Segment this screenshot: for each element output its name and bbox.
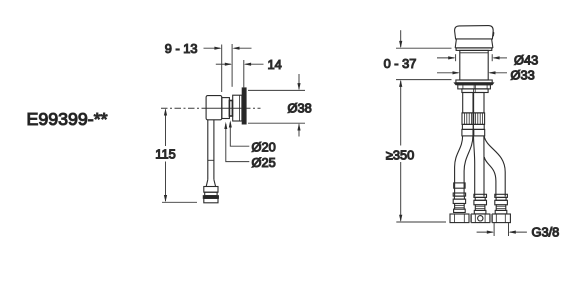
flange plate bottom (dark)	[454, 83, 494, 85]
svg-text:≥350: ≥350	[386, 148, 414, 163]
ring 2 (Ø20 section)	[229, 101, 232, 117]
supply pipe	[206, 120, 215, 187]
shank collar	[462, 89, 488, 93]
button skirt	[455, 39, 493, 48]
svg-text:Ø38: Ø38	[288, 100, 312, 115]
right hose	[484, 136, 505, 197]
mounting nut	[458, 85, 491, 89]
cup	[233, 95, 242, 121]
svg-text:9 - 13: 9 - 13	[165, 41, 198, 56]
svg-text:Ø33: Ø33	[511, 67, 535, 82]
ring on left hose	[454, 183, 465, 188]
band under skirt	[456, 48, 492, 51]
svg-text:0 - 37: 0 - 37	[384, 56, 417, 71]
leader Ø20	[230, 123, 249, 147]
centerline left view	[161, 107, 261, 109]
dimension Ø38	[248, 74, 305, 137]
dimension Ø33	[437, 72, 507, 74]
main cylinder Ø33	[460, 50, 488, 80]
valve body	[206, 96, 222, 120]
svg-text:Ø20: Ø20	[252, 140, 276, 155]
push button cap	[455, 26, 494, 39]
dimension Ø43	[437, 54, 507, 61]
ribbed connectors	[462, 113, 485, 125]
svg-text:G3/8: G3/8	[532, 225, 560, 240]
middle fitting	[474, 194, 487, 197]
svg-text:115: 115	[155, 147, 175, 162]
base manifold	[450, 214, 510, 223]
svg-text:14: 14	[268, 57, 282, 72]
dimension >=350	[396, 162, 446, 222]
right fitting	[495, 194, 508, 197]
svg-text:Ø25: Ø25	[252, 155, 276, 170]
middle hose	[474, 136, 485, 197]
hose end fittings	[453, 193, 507, 214]
flange plate top	[456, 80, 492, 83]
wall flange (Ø38)	[242, 88, 246, 124]
left hose	[455, 136, 473, 197]
dimension G3/8	[477, 223, 527, 236]
left fitting	[453, 193, 465, 196]
dimension 9 - 13	[204, 44, 252, 92]
svg-text:E99399-**: E99399-**	[27, 109, 108, 129]
dimension 0 - 37	[396, 30, 452, 145]
pipe end connector	[203, 187, 218, 203]
twin supply tubes	[463, 93, 484, 113]
dimension 14	[216, 60, 264, 88]
svg-text:Ø43: Ø43	[514, 52, 538, 67]
leader Ø25	[226, 124, 250, 162]
ring 1 (Ø25 section)	[222, 98, 230, 119]
connector bands	[462, 124, 485, 135]
dimension 115	[162, 110, 197, 203]
